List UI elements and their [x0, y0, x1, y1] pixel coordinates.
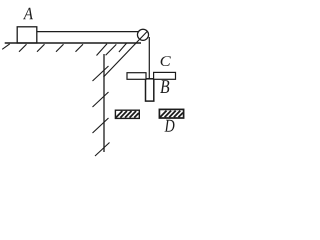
table top hatch 5: [76, 44, 84, 52]
plate D left part: [115, 110, 139, 118]
table top hatch 6 (corner): [97, 44, 108, 56]
plate D right part: [159, 109, 183, 118]
rod B: [146, 79, 154, 101]
crossbar C right half: [154, 72, 176, 79]
string vertical: [148, 37, 150, 80]
pulley support rod (diagonal from table edge through pulley axle): [104, 32, 148, 77]
table top hatch 4: [56, 44, 64, 52]
table top hatch 3: [37, 44, 45, 52]
crossbar C left half: [127, 73, 146, 80]
bracket hatch 2: [119, 43, 127, 52]
bracket hatch 1: [106, 44, 117, 55]
edge hatch 2: [93, 92, 109, 107]
label D: [164, 120, 174, 132]
table edge vertical line: [103, 54, 105, 152]
label A: [23, 8, 33, 20]
block A: [17, 27, 37, 43]
edge hatch 3: [93, 118, 109, 133]
edge hatch 4: [95, 143, 110, 157]
label C: [161, 56, 171, 66]
label B: [160, 80, 169, 93]
pulley: [137, 29, 148, 40]
table top line: [5, 42, 141, 44]
string horizontal: [37, 31, 139, 33]
table top hatch 1: [2, 44, 10, 49]
edge hatch 1: [93, 66, 109, 81]
table top hatch 2: [19, 44, 27, 52]
